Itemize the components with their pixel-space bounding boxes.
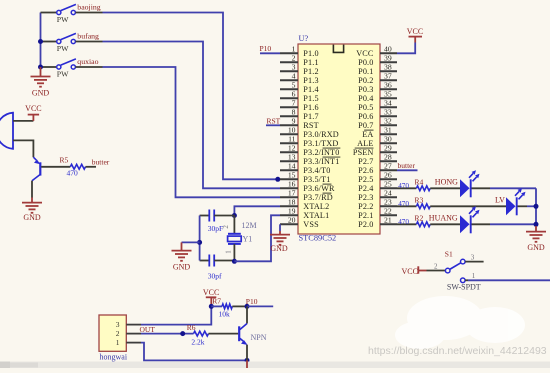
pin 24 P2.3 — [358, 189, 397, 203]
svg-text:9: 9 — [292, 117, 296, 126]
wire pin 40 to VCC — [397, 43, 415, 54]
power VCC (R7) — [203, 288, 219, 306]
svg-text:29: 29 — [384, 144, 392, 153]
wire resistor to LED — [430, 223, 460, 225]
junction crystal bottom — [232, 259, 237, 264]
pin 19 XTAL1 — [280, 207, 329, 221]
pin 34 P0.5 — [358, 99, 397, 113]
svg-text:1: 1 — [472, 272, 476, 280]
svg-text:quxiao: quxiao — [77, 57, 98, 66]
svg-text:VSS: VSS — [303, 220, 319, 229]
svg-text:VCC: VCC — [25, 104, 41, 113]
svg-text:30pf: 30pf — [208, 271, 222, 280]
resistor R7 10k — [211, 304, 247, 318]
svg-text:P1.2: P1.2 — [303, 67, 318, 76]
svg-text:28: 28 — [384, 153, 392, 162]
pin 5 P1.4 — [280, 81, 319, 95]
svg-text:24: 24 — [384, 189, 392, 198]
wire P10 stub — [247, 305, 273, 307]
svg-text:U?: U? — [299, 34, 309, 43]
wire LED to bus — [472, 223, 491, 225]
svg-text:3: 3 — [292, 63, 296, 72]
junction crystal top — [232, 213, 237, 218]
switch Sbaojing (baojing) — [41, 3, 103, 25]
svg-text:R5: R5 — [60, 155, 69, 164]
wire base — [41, 166, 70, 168]
svg-text:RST: RST — [267, 116, 281, 125]
svg-text:2: 2 — [222, 225, 230, 229]
wire S1 pin 1 (to right edge) — [465, 279, 468, 281]
svg-text:XTAL2: XTAL2 — [303, 202, 329, 211]
svg-text:11: 11 — [288, 135, 296, 144]
junction cap bus / gnd — [197, 240, 202, 245]
ground stub (cropped) — [246, 360, 248, 368]
svg-text:26: 26 — [384, 171, 392, 180]
junction at pin 15 — [275, 177, 280, 182]
svg-text:16: 16 — [288, 180, 296, 189]
svg-text:12M: 12M — [242, 221, 257, 230]
svg-text:1: 1 — [116, 338, 120, 347]
pin 27 P2.6 — [358, 162, 397, 176]
svg-text:P3.5/T1: P3.5/T1 — [303, 175, 330, 184]
svg-text:VCC: VCC — [407, 27, 423, 36]
svg-text:P1.1: P1.1 — [303, 58, 318, 67]
power VCC (pin 40) — [407, 27, 423, 43]
wire quxiao to P3.7/RD (pin 17) — [103, 67, 281, 197]
svg-text:6: 6 — [292, 90, 296, 99]
svg-text:2: 2 — [116, 329, 120, 338]
pin 40 VCC — [356, 45, 397, 59]
svg-text:OUT: OUT — [140, 325, 156, 334]
wire capacitor left bus — [199, 216, 201, 261]
svg-text:12: 12 — [288, 144, 296, 153]
svg-text:P3.7/RD: P3.7/RD — [303, 193, 333, 202]
svg-text:GND: GND — [270, 244, 288, 253]
svg-text:R4: R4 — [415, 177, 424, 186]
svg-text:VCC: VCC — [356, 49, 374, 58]
svg-text:https://blog.csdn.net/weixin_4: https://blog.csdn.net/weixin_44212493 — [368, 345, 547, 357]
pin 15 P3.5/T1 — [280, 171, 331, 185]
svg-text:2: 2 — [434, 262, 438, 270]
svg-text:P0.3: P0.3 — [358, 85, 373, 94]
resistor R6 2.2k — [187, 323, 209, 346]
switch S1 SW-SPDT — [445, 259, 465, 282]
wire pin 20 VSS to ground — [279, 224, 281, 231]
power VCC (S1) — [402, 266, 427, 276]
svg-text:VCC: VCC — [402, 267, 418, 276]
junction VCC/R7/hongwai — [209, 304, 214, 309]
svg-text:HUANG: HUANG — [429, 213, 458, 222]
svg-text:25: 25 — [384, 180, 392, 189]
svg-text:470: 470 — [398, 200, 409, 208]
svg-text:PSEN: PSEN — [353, 148, 374, 157]
svg-text:P0.6: P0.6 — [358, 112, 373, 121]
resistor R2 470 — [397, 213, 430, 226]
svg-text:36: 36 — [384, 81, 392, 90]
svg-text:470: 470 — [398, 218, 409, 226]
pin 16 P3.6/WR — [280, 180, 335, 194]
svg-text:20: 20 — [288, 216, 296, 225]
svg-text:baojing: baojing — [77, 3, 100, 12]
LED D? LV — [506, 188, 526, 215]
svg-text:S1: S1 — [445, 249, 453, 258]
net label RST (pin 9) — [266, 116, 281, 125]
crystal Y1 12M — [222, 216, 257, 262]
svg-text:R7: R7 — [212, 296, 221, 305]
pin 1 P1.0 — [280, 45, 319, 59]
resistor R5 470 — [60, 155, 97, 177]
pin 25 P2.4 — [358, 180, 397, 194]
svg-text:10k: 10k — [219, 309, 231, 318]
transistor Q1 PNP — [32, 157, 40, 181]
capacitor C? 30pf bottom — [200, 255, 235, 281]
svg-text:18: 18 — [288, 198, 296, 207]
svg-text:GND: GND — [32, 89, 50, 98]
svg-text:hongwai: hongwai — [100, 352, 128, 361]
pin 3 P1.2 — [280, 63, 319, 77]
svg-text:30pF: 30pF — [208, 224, 223, 233]
svg-text:2.2k: 2.2k — [191, 337, 204, 346]
svg-text:470: 470 — [67, 169, 79, 178]
svg-text:P2.4: P2.4 — [358, 184, 373, 193]
svg-text:P2.5: P2.5 — [358, 175, 373, 184]
wire gnd tee — [182, 241, 200, 243]
pin 30 ALE — [357, 135, 397, 149]
svg-text:P10: P10 — [260, 44, 272, 53]
junction on switch bus (bufang) — [38, 39, 43, 44]
IC notch — [333, 45, 343, 53]
wire resistor to LED — [430, 205, 506, 207]
wire LED to bus — [518, 205, 528, 207]
decorative watermark blob — [395, 296, 525, 349]
svg-text:3: 3 — [116, 320, 120, 329]
svg-text:GND: GND — [527, 243, 545, 252]
wire hongwai pin1 to emitter — [141, 343, 247, 361]
svg-text:ALE: ALE — [357, 139, 373, 148]
pin 36 P0.3 — [358, 81, 397, 95]
pin 2 P1.1 — [280, 54, 319, 68]
svg-text:P0.4: P0.4 — [358, 94, 373, 103]
svg-text:P1.6: P1.6 — [303, 103, 318, 112]
svg-text:13: 13 — [288, 153, 296, 162]
pin 32 P0.7 — [358, 117, 397, 131]
junction OUT wire — [180, 331, 185, 336]
svg-text:P3.4/T0: P3.4/T0 — [303, 166, 330, 175]
pin 10 P3.0/RXD — [280, 126, 339, 140]
transistor Q2 NPN — [239, 306, 267, 360]
capacitor C? 30pF top — [200, 210, 235, 233]
svg-text:30: 30 — [384, 135, 392, 144]
svg-text:P2.3: P2.3 — [358, 193, 373, 202]
junction on switch bus (quxiao) — [38, 65, 43, 70]
junction emitter/gnd — [245, 358, 250, 363]
pin 29 PSEN — [353, 144, 397, 158]
svg-text:P2.0: P2.0 — [358, 220, 373, 229]
pin 21 P2.0 — [358, 216, 397, 230]
svg-text:LV: LV — [495, 195, 505, 204]
wire buzzer bottom lead — [13, 140, 33, 157]
svg-text:40: 40 — [384, 45, 392, 54]
wire resistor to LED — [430, 187, 460, 189]
svg-text:P0.2: P0.2 — [358, 76, 373, 85]
svg-text:P3.0/RXD: P3.0/RXD — [303, 130, 339, 139]
net label P10 (pin 1) — [260, 44, 281, 53]
pin 17 P3.7/RD — [280, 189, 333, 203]
LED D? HONG — [460, 170, 480, 197]
svg-text:8: 8 — [292, 108, 296, 117]
wire pin 18 XTAL2 to crystal — [234, 206, 280, 215]
wire buzzer top lead — [13, 120, 33, 122]
pin 12 P3.2/INT0 — [280, 144, 340, 158]
svg-text:GND: GND — [173, 263, 191, 272]
svg-text:22: 22 — [384, 207, 392, 216]
svg-text:P1.7: P1.7 — [303, 112, 318, 121]
svg-text:PW: PW — [57, 70, 69, 79]
svg-text:P3.2/INT0: P3.2/INT0 — [303, 148, 339, 157]
ground GND (VSS) — [270, 231, 290, 253]
pin 13 P3.3/INT1 — [280, 153, 340, 167]
wire baojing to P3.5/T1 (pin 15) — [103, 13, 279, 180]
sensor module hongwai — [99, 315, 141, 361]
scrollbar strip — [0, 362, 550, 369]
pin 33 P0.6 — [358, 108, 397, 122]
svg-text:R3: R3 — [415, 195, 424, 204]
pin 4 P1.3 — [280, 72, 319, 86]
switch Sbufang (bufang) — [41, 32, 103, 54]
pin 14 P3.4/T0 — [280, 162, 331, 176]
pin 11 P3.1/TXD — [280, 135, 338, 149]
svg-text:P1.5: P1.5 — [303, 94, 318, 103]
svg-text:butter: butter — [92, 157, 110, 166]
svg-text:35: 35 — [384, 90, 392, 99]
pin 31 EA — [362, 126, 397, 140]
svg-text:P1.4: P1.4 — [303, 85, 318, 94]
svg-text:33: 33 — [384, 108, 392, 117]
svg-text:GND: GND — [23, 213, 41, 222]
pin 23 P2.2 — [358, 198, 397, 212]
svg-text:23: 23 — [384, 198, 392, 207]
svg-text:17: 17 — [288, 189, 296, 198]
svg-text:32: 32 — [384, 117, 392, 126]
svg-text:P3.3/INT1: P3.3/INT1 — [303, 157, 339, 166]
op IC U? STC89C52 MCU body — [298, 44, 380, 234]
wire bufang to P3.6/WR (pin 16) — [103, 42, 281, 189]
wire R6 to base — [209, 333, 239, 335]
svg-text:7: 7 — [292, 99, 296, 108]
svg-text:EA: EA — [362, 130, 373, 139]
svg-text:3: 3 — [471, 253, 475, 261]
junction collector — [245, 304, 250, 309]
buzzer LS1 — [0, 113, 13, 149]
svg-text:P3.6/WR: P3.6/WR — [303, 184, 335, 193]
wire ground bus for switches — [40, 13, 42, 68]
svg-text:2: 2 — [292, 54, 296, 63]
resistor R3 470 — [397, 195, 430, 208]
svg-text:STC89C52: STC89C52 — [299, 234, 337, 243]
LED D? HUANG — [460, 206, 480, 233]
svg-text:bufang: bufang — [77, 32, 99, 41]
svg-text:P3.1/TXD: P3.1/TXD — [303, 139, 338, 148]
ground GND (buzzer transistor) — [22, 198, 42, 223]
svg-text:27: 27 — [384, 162, 392, 171]
pin 26 P2.5 — [358, 171, 397, 185]
junction bus HUANG — [534, 222, 539, 227]
svg-text:14: 14 — [288, 162, 296, 171]
ground GND (LED bus) — [526, 226, 546, 252]
svg-text:19: 19 — [288, 207, 296, 216]
svg-text:5: 5 — [292, 81, 296, 90]
svg-text:XTAL1: XTAL1 — [303, 211, 329, 220]
power VCC (buzzer) — [25, 104, 41, 121]
svg-text:1: 1 — [292, 45, 296, 54]
svg-text:21: 21 — [384, 216, 392, 225]
pin 18 XTAL2 — [280, 198, 329, 212]
svg-text:Y1: Y1 — [243, 235, 253, 244]
svg-text:P0.1: P0.1 — [358, 67, 373, 76]
pin 20 VSS — [280, 216, 319, 230]
pin 7 P1.6 — [280, 99, 319, 113]
wire LED cathode bus — [535, 188, 537, 226]
svg-text:470: 470 — [398, 182, 409, 190]
svg-text:SW-SPDT: SW-SPDT — [447, 282, 481, 291]
wire LED to bus — [472, 187, 491, 189]
ground GND (crystal) — [172, 242, 192, 271]
svg-text:P1.0: P1.0 — [303, 49, 318, 58]
svg-text:31: 31 — [384, 126, 392, 135]
wire collector to ground — [31, 181, 33, 198]
svg-text:38: 38 — [384, 63, 392, 72]
svg-text:HONG: HONG — [435, 177, 458, 186]
pin 9 RST — [280, 117, 319, 131]
svg-text:RST: RST — [303, 121, 318, 130]
svg-text:37: 37 — [384, 72, 392, 81]
net label butter (pin 27) — [397, 161, 418, 170]
svg-text:10: 10 — [288, 126, 296, 135]
svg-text:P0.7: P0.7 — [358, 121, 373, 130]
switch Squxiao (quxiao) — [41, 57, 103, 79]
svg-text:P2.7: P2.7 — [358, 157, 373, 166]
pin 39 P0.0 — [358, 54, 397, 68]
svg-text:P0.0: P0.0 — [358, 58, 373, 67]
resistor R4 470 — [397, 177, 430, 190]
svg-text:1: 1 — [225, 250, 233, 254]
ground GND (switch bus) — [31, 67, 51, 98]
svg-text:P0.5: P0.5 — [358, 103, 373, 112]
pin 35 P0.4 — [358, 90, 397, 104]
svg-text:39: 39 — [384, 54, 392, 63]
svg-text:P2.6: P2.6 — [358, 166, 373, 175]
svg-text:34: 34 — [384, 99, 392, 108]
svg-text:PW: PW — [57, 44, 69, 53]
pin 28 P2.7 — [358, 153, 397, 167]
svg-text:PW: PW — [57, 15, 69, 24]
wire hongwai pin2 to R6 — [141, 333, 194, 335]
wire hongwai pin3 to VCC junction — [141, 306, 211, 324]
svg-text:R6: R6 — [187, 323, 196, 332]
pin 6 P1.5 — [280, 90, 319, 104]
svg-text:P1.3: P1.3 — [303, 76, 318, 85]
svg-text:R2: R2 — [415, 213, 424, 222]
pin 38 P0.1 — [358, 63, 397, 77]
svg-text:P2.2: P2.2 — [358, 202, 373, 211]
svg-text:15: 15 — [288, 171, 296, 180]
wire S1 pin 3 — [465, 261, 483, 263]
pin 22 P2.1 — [358, 207, 397, 221]
svg-text:butter: butter — [398, 161, 416, 170]
pin 37 P0.2 — [358, 72, 397, 86]
junction bus LV — [534, 204, 539, 209]
wire VCC to S1 common — [427, 270, 446, 272]
svg-text:4: 4 — [292, 72, 296, 81]
svg-text:NPN: NPN — [251, 333, 267, 342]
svg-text:P2.1: P2.1 — [358, 211, 373, 220]
wire crystal to pin 19 XTAL1 — [234, 215, 280, 261]
pin 8 P1.7 — [280, 108, 319, 122]
